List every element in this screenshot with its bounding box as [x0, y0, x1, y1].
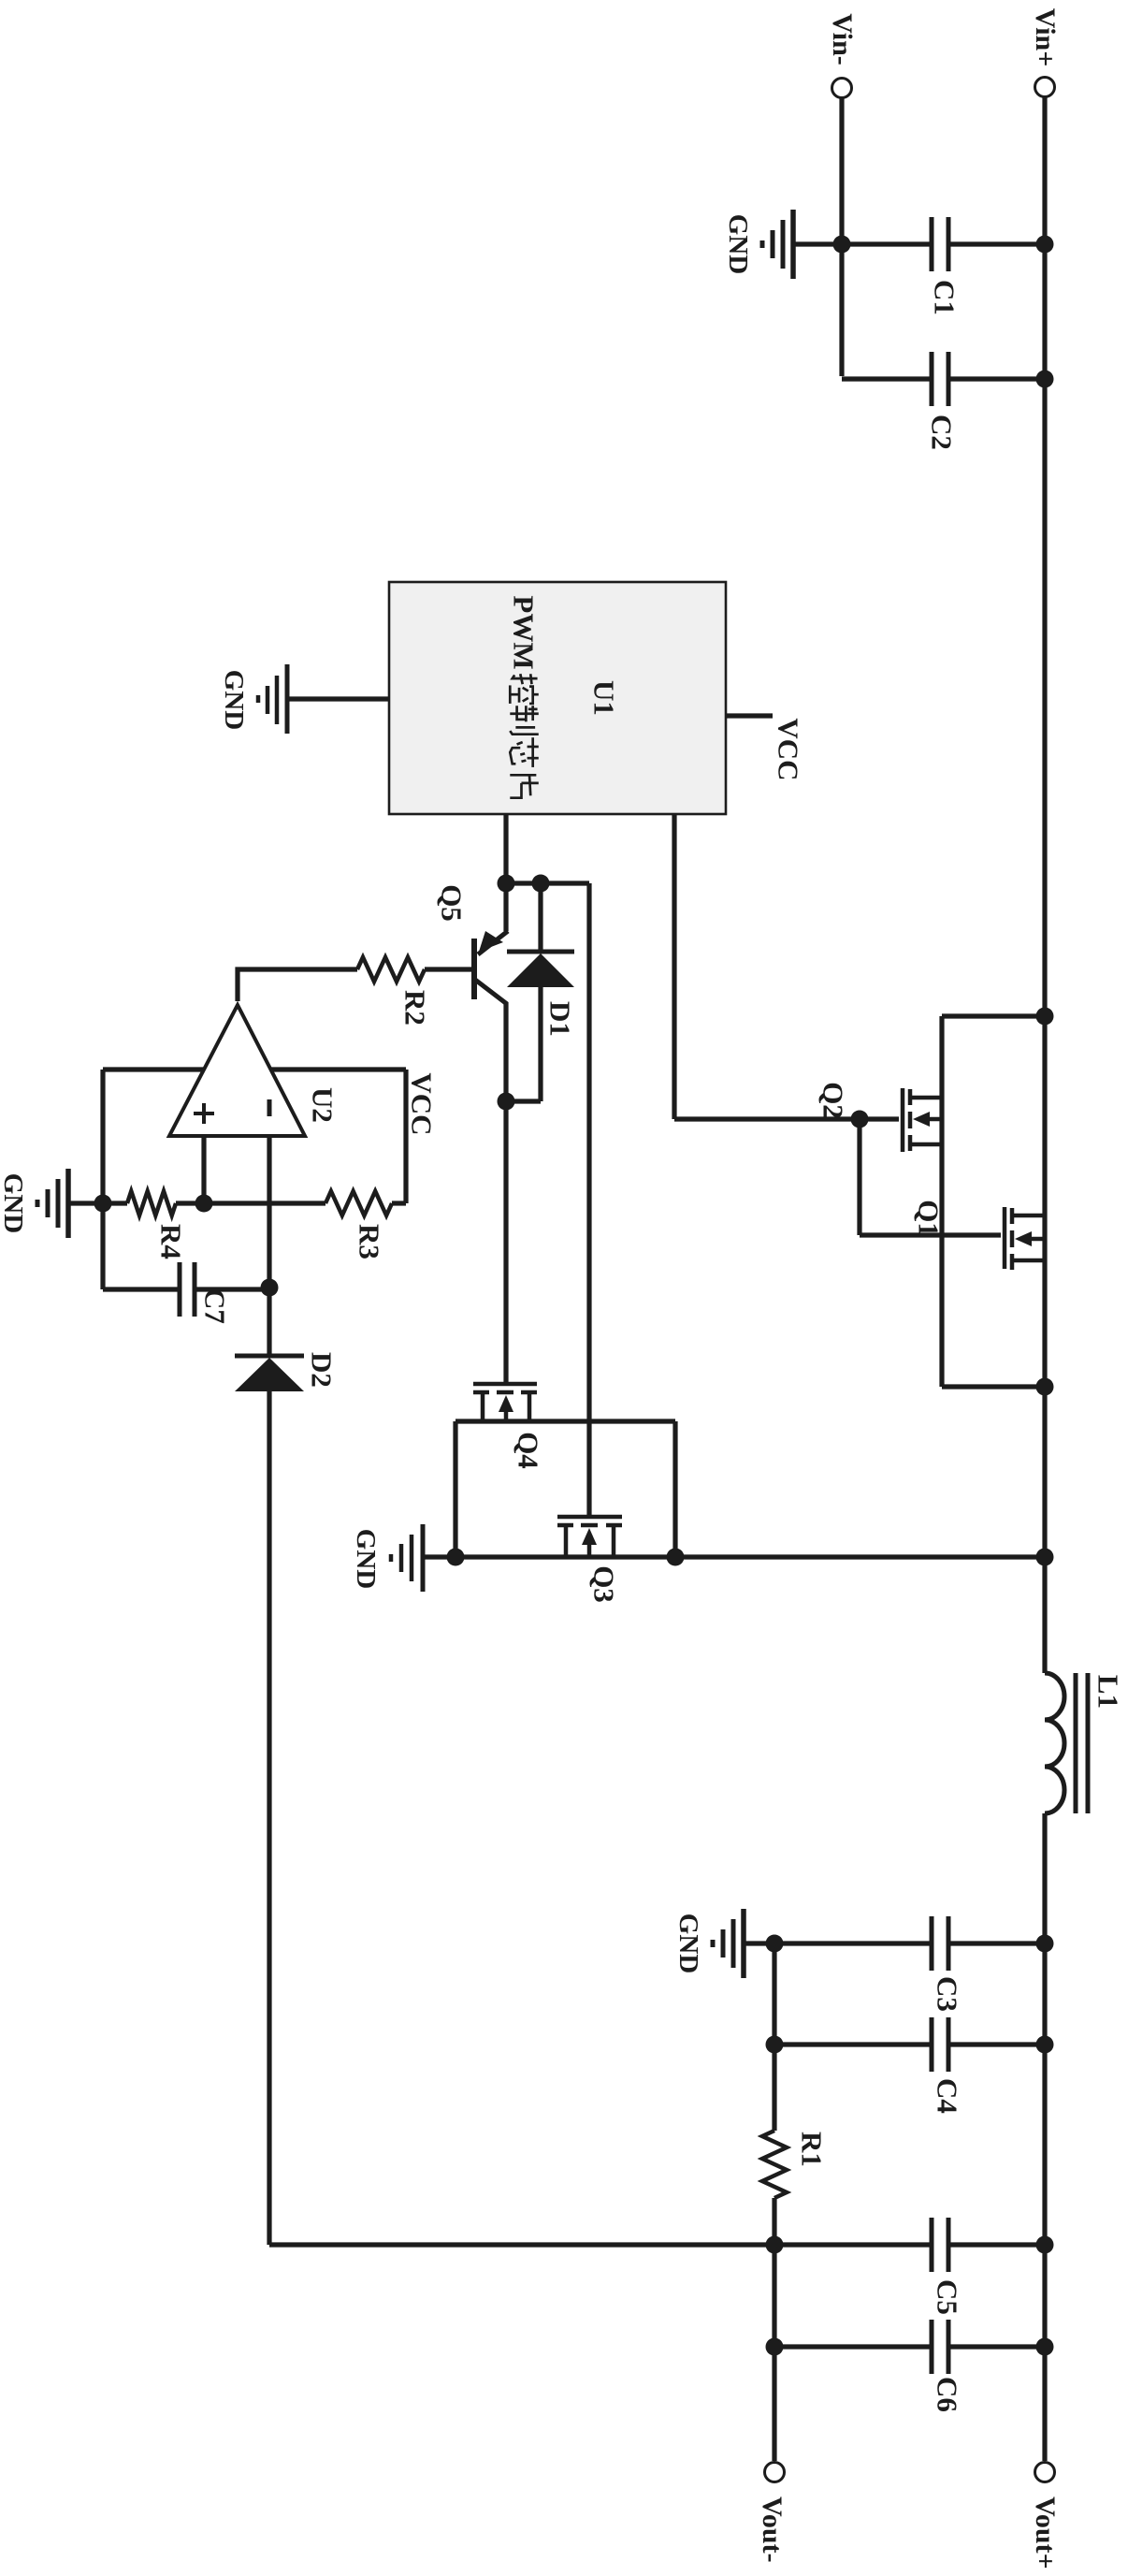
- wire R2 to U2 output: [238, 969, 357, 1001]
- wire Q2 right riser: [942, 1384, 1045, 1389]
- svg-text:Vin-: Vin-: [827, 13, 858, 65]
- svg-text:Vin+: Vin+: [1030, 8, 1061, 67]
- svg-text:U1: U1: [587, 680, 620, 716]
- svg-text:VCC: VCC: [405, 1072, 438, 1135]
- svg-text:C6: C6: [931, 2377, 963, 2412]
- terminal Vin-: [827, 13, 858, 97]
- svg-text:Q3: Q3: [587, 1565, 620, 1603]
- node C6 bottom junction: [766, 2338, 784, 2356]
- op-amp U1 PWM control chip box: [389, 582, 726, 814]
- node C5 bottom junction: [766, 2236, 784, 2254]
- resistor R1: [762, 2131, 828, 2198]
- wire U1 VCC pin: [726, 713, 773, 718]
- svg-text:U2: U2: [306, 1087, 339, 1123]
- wire U2 minus input to D2: [267, 1136, 271, 1355]
- svg-text:GND: GND: [351, 1529, 381, 1589]
- svg-text:R2: R2: [398, 990, 431, 1026]
- wire R3 to R4: [176, 1201, 325, 1205]
- svg-text:Vout-: Vout-: [757, 2496, 788, 2563]
- svg-text:D2: D2: [305, 1352, 338, 1388]
- diode D1: [507, 952, 576, 1101]
- capacitor C3: [931, 1916, 963, 2012]
- svg-text:Q4: Q4: [512, 1432, 544, 1469]
- svg-text:C7: C7: [198, 1288, 231, 1324]
- svg-text:C4: C4: [931, 2078, 963, 2114]
- node VCC label U1: [772, 718, 804, 780]
- wire switch node rail: [425, 1554, 1045, 1559]
- resistor R3: [325, 1191, 392, 1259]
- wire Q2 baseline: [939, 1016, 944, 1387]
- svg-text:L1: L1: [1092, 1675, 1124, 1709]
- svg-text:D1: D1: [543, 1001, 576, 1037]
- wire Q4 baseline: [456, 1419, 675, 1423]
- node C4 rail junction: [1036, 2036, 1054, 2054]
- wire C1 branch: [793, 241, 1045, 246]
- wire Q2 left riser: [942, 1013, 1045, 1018]
- capacitor C6: [931, 2320, 963, 2412]
- node C5 rail junction: [1036, 2236, 1054, 2254]
- resistor R4: [127, 1191, 187, 1259]
- wire Vout- bus: [772, 1943, 776, 2461]
- node plus input junction: [195, 1195, 213, 1213]
- wire U1 to Q2 gate: [674, 814, 899, 1119]
- wire D1 cathode branch: [538, 883, 542, 951]
- wire Q1 gate branch: [860, 1119, 1001, 1235]
- capacitor C2: [925, 352, 958, 450]
- wire rail after L1: [1042, 1813, 1047, 2461]
- node C3 rail junction: [1036, 1935, 1054, 1953]
- node C7 junction: [261, 1279, 279, 1297]
- wire Q5 collector to Q4 gate: [503, 1002, 508, 1382]
- node C4 bottom junction: [766, 2036, 784, 2054]
- wire U2 plus input: [201, 1136, 206, 1203]
- wire C6 branch: [774, 2344, 1045, 2349]
- inductor L1: [1045, 1673, 1124, 1813]
- ground at output: [673, 1909, 744, 1978]
- svg-text:GND: GND: [673, 1914, 703, 1973]
- ground at U2: [0, 1169, 68, 1238]
- wire Q4 drain link: [672, 1421, 677, 1557]
- svg-text:R4: R4: [154, 1224, 187, 1259]
- svg-text:GND: GND: [219, 670, 249, 730]
- svg-text:R1: R1: [795, 2132, 828, 2167]
- node Q2 riser junction: [1036, 1008, 1054, 1026]
- op-amp U2: [169, 1005, 339, 1136]
- node Q5 emitter net junction: [498, 875, 515, 893]
- wire C2 branch: [842, 376, 1045, 381]
- wire VCC to R3: [392, 1201, 406, 1205]
- transistor Q1: [912, 1200, 1045, 1270]
- node rail top junction: [1036, 1549, 1054, 1566]
- wire U1 to Q5 emitter: [503, 814, 508, 931]
- wire C7 bottom: [103, 1287, 181, 1291]
- svg-text:C5: C5: [931, 2279, 963, 2315]
- transistor Q4: [473, 1384, 544, 1469]
- terminal Vout+: [1030, 2463, 1061, 2569]
- terminal Vout-: [757, 2463, 788, 2563]
- wire Q4 source link: [453, 1421, 457, 1557]
- ground at Q3 Q4 rail: [351, 1524, 423, 1592]
- svg-text:Q2: Q2: [817, 1082, 849, 1119]
- svg-text:PWM: PWM: [507, 595, 540, 669]
- svg-text:C3: C3: [931, 1976, 963, 2012]
- wire C5 branch: [269, 2242, 1045, 2247]
- svg-text:GND: GND: [723, 214, 753, 274]
- svg-text:Vout+: Vout+: [1030, 2496, 1061, 2569]
- node Q4 source junction: [447, 1549, 465, 1566]
- wire C4 branch: [774, 2042, 1045, 2046]
- wire feedback bottom: [100, 1070, 105, 1289]
- wire feedback left vertical: [103, 1067, 406, 1071]
- svg-text:VCC: VCC: [772, 718, 804, 780]
- transistor Q3: [557, 1517, 622, 1603]
- wire feedback top: [403, 1070, 408, 1203]
- wire C3 branch: [745, 1941, 1045, 1945]
- terminal Vin+: [1030, 8, 1061, 97]
- capacitor C4: [931, 2017, 963, 2114]
- node R4 bottom junction: [94, 1195, 112, 1213]
- capacitor C7: [180, 1262, 231, 1324]
- node C1-Vin- junction: [833, 236, 851, 254]
- node C3 bottom junction: [766, 1935, 784, 1953]
- wire Vin+ rail segment: [1042, 97, 1047, 1673]
- diode D2: [235, 1352, 338, 1391]
- svg-text:Q5: Q5: [435, 884, 468, 922]
- capacitor C5: [931, 2218, 963, 2315]
- node D1 anode junction: [498, 1093, 515, 1111]
- wire R4 to GND: [70, 1201, 127, 1205]
- wire D2 to feedback corner: [267, 1391, 271, 2245]
- ground at U1: [219, 664, 287, 734]
- U1 label PWM control chip: [507, 595, 540, 797]
- svg-text:C1: C1: [928, 280, 961, 315]
- node C6 rail junction: [1036, 2338, 1054, 2356]
- svg-text:C2: C2: [925, 415, 958, 450]
- wire node stub: [506, 880, 589, 885]
- transistor Q5: [425, 884, 508, 1004]
- svg-text:Q1: Q1: [912, 1200, 945, 1237]
- transistor Q2: [817, 1082, 942, 1152]
- wire C7 top: [194, 1287, 269, 1291]
- wire to Q3 gate: [586, 883, 591, 1515]
- node C1-rail junction: [1036, 236, 1054, 254]
- node Q2 right riser junction: [1036, 1378, 1054, 1396]
- wire Vin- line: [839, 98, 844, 376]
- svg-text:GND: GND: [0, 1173, 28, 1233]
- capacitor C1: [928, 217, 961, 315]
- node Q4 drain junction: [667, 1549, 685, 1566]
- wire U1 GND pin: [287, 696, 389, 701]
- svg-text:R3: R3: [353, 1224, 385, 1259]
- ground at C1: [723, 210, 793, 279]
- node D1 cathode branch junction: [532, 875, 550, 893]
- resistor R2: [357, 957, 431, 1026]
- node Q1 gate branch junction: [851, 1111, 869, 1128]
- node C2-rail junction: [1036, 371, 1054, 388]
- node VCC label U2: [405, 1072, 438, 1135]
